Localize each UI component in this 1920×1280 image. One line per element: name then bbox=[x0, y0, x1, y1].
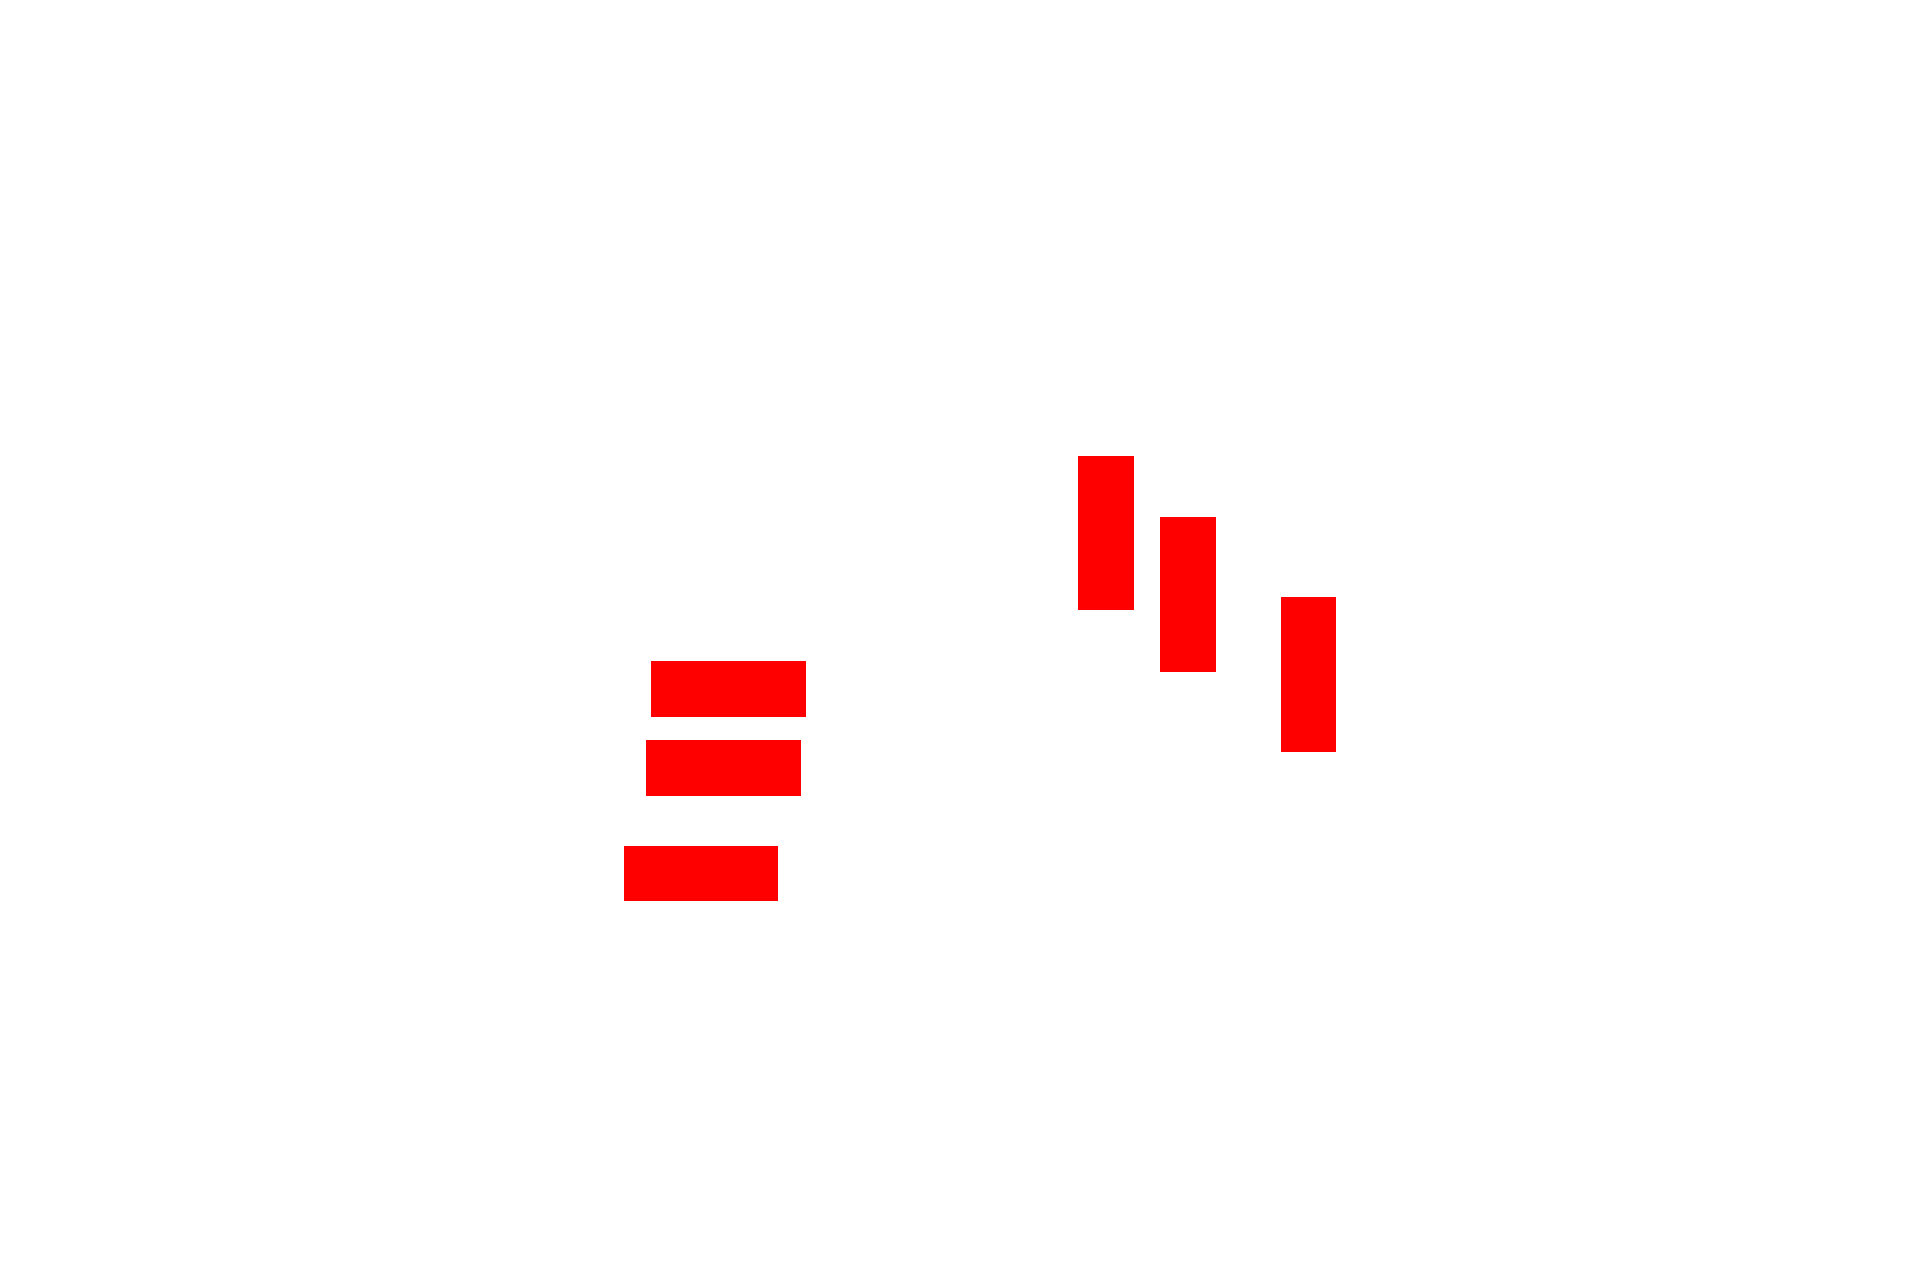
red vertical bar 4 (top-left of right group) bbox=[1078, 456, 1134, 610]
red vertical bar 5 (middle of right group) bbox=[1160, 517, 1216, 672]
red horizontal bar 1 (top of left group) bbox=[651, 661, 806, 717]
red horizontal bar 2 (middle of left group) bbox=[646, 740, 801, 796]
red vertical bar 6 (bottom-right of right group) bbox=[1281, 597, 1336, 752]
red horizontal bar 3 (bottom of left group) bbox=[624, 846, 778, 901]
